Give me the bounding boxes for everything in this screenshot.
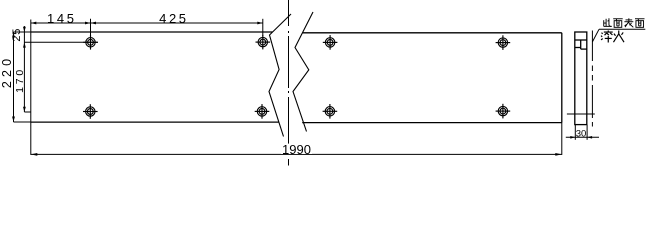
svg-text:145: 145: [47, 11, 77, 26]
svg-text:25: 25: [11, 28, 23, 42]
svg-text:220: 220: [0, 55, 14, 88]
svg-text:425: 425: [159, 11, 189, 26]
svg-text:1990: 1990: [282, 142, 311, 157]
svg-text:170: 170: [14, 67, 26, 93]
svg-text:30: 30: [576, 128, 587, 139]
